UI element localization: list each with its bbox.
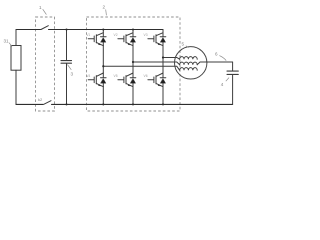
capacitor C2 top lead (232, 62, 234, 71)
label 31 resistor (4, 39, 13, 47)
svg-text:V4: V4 (86, 74, 90, 78)
svg-text:2: 2 (103, 5, 106, 10)
node top A (102, 28, 104, 30)
label 1 contactor (39, 5, 46, 15)
switch K2 bottom blade (44, 101, 52, 105)
capacitor C1 plates (61, 61, 72, 64)
svg-text:V5: V5 (114, 74, 118, 78)
wire phase leg C (162, 46, 164, 73)
resistor R1 (11, 46, 21, 71)
capacitor C1 bottom lead (66, 63, 68, 104)
node bottom cap (65, 103, 67, 105)
node bottom A (102, 103, 104, 105)
switch K1 top blade (41, 26, 48, 30)
svg-text:V2: V2 (114, 33, 118, 37)
svg-text:V6: V6 (144, 74, 148, 78)
svg-text:4: 4 (221, 82, 224, 87)
inductor winding La (180, 57, 198, 60)
transistor V2 (118, 30, 136, 46)
wire phase line B (133, 62, 180, 65)
transistor V6 (148, 73, 166, 104)
wire top rail right (49, 29, 164, 31)
label 3 capacitor C1 (67, 65, 73, 77)
inverter dashed box U (87, 17, 181, 111)
node bottom B (132, 103, 134, 105)
wire bottom rail right (52, 103, 233, 105)
node phase B (132, 61, 134, 63)
wire phase leg B (132, 46, 134, 73)
inductor winding Lc (180, 68, 198, 71)
node bottom C (162, 103, 164, 105)
svg-text:31: 31 (4, 39, 10, 44)
svg-text:k2: k2 (38, 97, 43, 102)
svg-text:1: 1 (39, 5, 42, 10)
svg-text:6: 6 (215, 52, 218, 57)
transistor V3 (148, 30, 166, 46)
inductor winding Lb (180, 62, 198, 65)
svg-text:V3: V3 (144, 33, 148, 37)
node top B (132, 28, 134, 30)
capacitor C2 plates (227, 71, 238, 74)
reference labels (4, 5, 230, 102)
IGBT cells (88, 30, 166, 105)
svg-text:V1: V1 (86, 33, 90, 37)
wire phase line A (103, 66, 179, 70)
motor M circle (175, 47, 207, 79)
label 6 wire (215, 52, 226, 61)
node top cap (65, 28, 67, 30)
node phase A (102, 65, 104, 67)
wire phase leg A (102, 46, 104, 73)
transistor V5 (118, 73, 136, 104)
transistor V1 (88, 30, 106, 46)
label 4 capacitor C2 (221, 78, 229, 87)
wire phase line C (163, 58, 180, 60)
wire resistor to bottom rail (15, 70, 17, 104)
wire motor to C2 (197, 62, 232, 65)
transistor V4 (88, 73, 106, 104)
junction dots (65, 28, 164, 105)
label 2 inverter (103, 5, 107, 16)
contactor dashed box K (36, 17, 55, 111)
capacitor C2 bottom lead (232, 75, 234, 105)
svg-text:5: 5 (182, 42, 185, 47)
wire bottom rail left (16, 103, 43, 105)
capacitor C1 top lead (66, 30, 68, 61)
wire left drop (15, 30, 17, 46)
node phase C (162, 56, 164, 58)
svg-text:3: 3 (71, 72, 74, 77)
label 5 motor (182, 42, 189, 48)
wire top rail left (16, 29, 41, 31)
